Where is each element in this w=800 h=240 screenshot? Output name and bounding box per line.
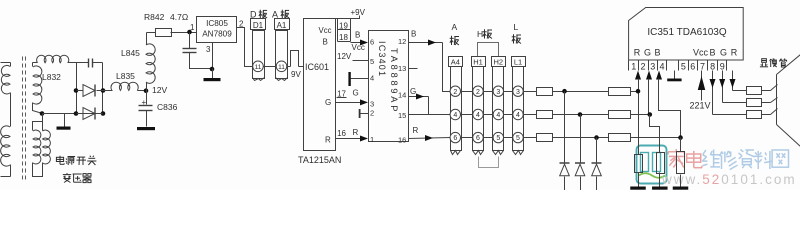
svg-text:Vcc: Vcc: [319, 26, 332, 35]
H1-H2 dashed link: [479, 157, 499, 168]
svg-text:H2: H2: [494, 58, 504, 67]
primary winding lower: [1, 126, 10, 166]
wire down: [596, 138, 598, 163]
svg-text:C836: C836: [157, 102, 178, 112]
wire Vcc pin5: [353, 60, 369, 62]
svg-text:R842: R842: [144, 12, 165, 22]
svg-text:G: G: [410, 87, 416, 96]
secondary winding lower B: [43, 130, 51, 164]
svg-text:+9V: +9V: [351, 8, 366, 17]
protection diode x580: [575, 162, 585, 164]
svg-text:B: B: [323, 38, 328, 47]
row resistors (second stage): [609, 88, 631, 96]
wire row1: [631, 91, 639, 93]
capacitor (top): [88, 59, 90, 68]
wire H1-H2: [484, 137, 494, 139]
svg-text:G: G: [325, 98, 331, 107]
svg-text:12V: 12V: [337, 52, 352, 61]
svg-text:13: 13: [398, 64, 406, 73]
connector D1: [251, 19, 266, 30]
output R to CRT: [732, 71, 734, 91]
wire +9V: [351, 16, 360, 19]
ground: [630, 187, 646, 190]
svg-text:B: B: [709, 48, 715, 58]
svg-text:TA8889AP: TA8889AP: [389, 48, 399, 114]
wire: [138, 90, 147, 92]
svg-text:4: 4: [370, 74, 374, 83]
output B (pin8) to CRT: [712, 71, 714, 115]
wire row2: [631, 114, 650, 116]
junction row3/pin3: [678, 135, 683, 140]
pin cells: [628, 61, 630, 71]
wire: [10, 165, 12, 177]
svg-text:16: 16: [337, 129, 346, 138]
svg-text:11: 11: [278, 64, 285, 71]
svg-text:R: R: [353, 128, 359, 137]
wire: [32, 63, 34, 67]
secondary winding lower A: [33, 130, 41, 164]
svg-text:L: L: [514, 22, 519, 32]
capacitor bar pin4: [348, 72, 350, 86]
wire primary bottom: [1, 176, 11, 178]
wire bottom row: [43, 113, 103, 115]
ground: [137, 127, 155, 130]
svg-text:R: R: [731, 48, 738, 58]
svg-text:6: 6: [690, 62, 695, 72]
junction: [210, 67, 215, 72]
cathode pin tick: [771, 109, 778, 115]
svg-text:2: 2: [640, 62, 645, 72]
label 电源开关: [59, 156, 61, 163]
junction x580: [578, 112, 583, 117]
svg-text:4: 4: [453, 112, 457, 119]
wire H2-L1: [504, 114, 513, 116]
svg-text:5: 5: [370, 57, 374, 66]
junction: [101, 111, 106, 116]
node secondary: [40, 111, 45, 116]
svg-text:1: 1: [370, 135, 374, 144]
svg-text:6: 6: [476, 135, 480, 142]
resistor R842: [147, 32, 156, 34]
svg-text:5: 5: [516, 135, 520, 142]
svg-text:3: 3: [370, 100, 374, 109]
svg-text:19: 19: [339, 22, 348, 31]
svg-text:5: 5: [681, 62, 686, 72]
H board bracket: [478, 43, 499, 57]
svg-text:B: B: [355, 31, 360, 40]
load resistor (pin3): [677, 152, 685, 174]
svg-text:L835: L835: [116, 71, 135, 81]
wire primary top: [1, 62, 11, 64]
ground: [652, 187, 668, 190]
ground: [57, 127, 71, 130]
svg-text:L1: L1: [514, 58, 522, 67]
capacitor C836: [146, 91, 148, 105]
protection diode x564.5: [560, 162, 570, 164]
wire: [146, 111, 148, 127]
wire R out (pin16): [409, 138, 451, 139]
diode D2 (lower): [83, 108, 95, 120]
svg-text:B: B: [411, 30, 416, 39]
wire H1-H2: [484, 114, 494, 116]
inductor L832: [33, 62, 38, 64]
wire IC805 pin2 to D1: [237, 28, 253, 67]
svg-text:3: 3: [516, 89, 520, 96]
primary winding upper: [1, 65, 10, 94]
wire: [33, 114, 43, 131]
svg-text:AN7809: AN7809: [202, 30, 232, 39]
svg-text:2: 2: [370, 109, 374, 118]
cathode pin tick: [771, 85, 778, 91]
connector L1: [512, 57, 526, 67]
core line: [25, 57, 27, 183]
pin1 input net (row1): [635, 71, 641, 80]
svg-text:6: 6: [453, 135, 457, 142]
cathode pin tick: [771, 98, 778, 103]
svg-text:7: 7: [700, 62, 705, 72]
watermark text 家电维修资料网: [675, 149, 677, 151]
stub pin2: [359, 109, 361, 118]
svg-text:G: G: [644, 48, 651, 58]
svg-text:G: G: [353, 89, 359, 98]
wire G out (pin14): [409, 96, 429, 98]
wire B (IC601 pin18 to IC3401 pin6): [351, 42, 361, 44]
svg-text:221V: 221V: [690, 101, 711, 111]
wire B out (pin12): [409, 42, 443, 44]
svg-text:4: 4: [659, 62, 664, 72]
wire pin3: [212, 43, 214, 69]
svg-text:B: B: [654, 48, 660, 58]
wire D1-A1: [264, 66, 277, 68]
output G (pin9) to CRT: [722, 71, 724, 103]
stub pin13: [409, 68, 418, 70]
wire: [171, 32, 197, 34]
pin cells 19/18: [336, 18, 351, 20]
svg-text:9V: 9V: [291, 70, 301, 79]
svg-text:IC3401: IC3401: [377, 41, 387, 77]
221V supply (pin7): [701, 71, 703, 101]
svg-text:A4: A4: [451, 58, 460, 67]
svg-text:A: A: [452, 22, 458, 32]
svg-text:6: 6: [370, 38, 374, 47]
svg-text:G: G: [720, 48, 727, 58]
junction x596.5: [594, 135, 599, 140]
stub pin15: [409, 114, 429, 116]
wire right vertical: [102, 63, 104, 114]
wire G (IC601 pin17 to IC3401 pin3): [336, 102, 361, 104]
IC IC3401 TA8889AP: [369, 31, 409, 142]
connector H1: [472, 57, 486, 67]
wire A4-H1: [461, 114, 473, 116]
wire left vertical: [76, 63, 78, 114]
wire: [190, 53, 213, 69]
svg-text:Vcc: Vcc: [693, 48, 709, 58]
svg-text:8: 8: [710, 62, 715, 72]
svg-text:16: 16: [398, 136, 406, 145]
inductor L835: [103, 90, 113, 92]
wire: [33, 163, 43, 177]
jumper bump: [291, 51, 299, 67]
CRT cathode resistors: [747, 87, 762, 95]
wire H1-H2: [484, 91, 494, 93]
svg-text:IC601: IC601: [305, 62, 329, 72]
svg-text:H: H: [477, 29, 483, 39]
svg-text:4: 4: [476, 112, 480, 119]
regulator IC805 AN7809: [197, 17, 237, 43]
secondary winding upper: [33, 66, 42, 104]
junction: [74, 111, 79, 116]
svg-text:IC351 TDA6103Q: IC351 TDA6103Q: [647, 27, 727, 38]
wire down: [580, 115, 582, 163]
IC IC351 TDA6103Q: [629, 8, 744, 61]
wire H2-L1: [504, 91, 513, 93]
wire to edge: [564, 177, 566, 191]
wire A4-H1: [461, 91, 473, 93]
svg-text:5: 5: [496, 135, 500, 142]
connector A4: [449, 57, 463, 67]
svg-text:Vcc: Vcc: [352, 43, 365, 52]
svg-text:D1: D1: [253, 21, 264, 30]
wire pin4: [351, 78, 369, 80]
CRT base: [776, 75, 778, 125]
label 显像管: [762, 59, 767, 63]
junction: [74, 88, 79, 93]
svg-text:IC805: IC805: [206, 19, 228, 28]
wire to IC601: [299, 66, 304, 68]
svg-text:4: 4: [516, 112, 520, 119]
svg-text:4: 4: [496, 112, 500, 119]
connector H2: [492, 57, 506, 67]
ground: [204, 78, 221, 81]
protection diode x596.5: [592, 162, 602, 164]
svg-text:L845: L845: [121, 48, 140, 58]
svg-text:3: 3: [496, 89, 500, 96]
svg-text:12: 12: [398, 37, 406, 46]
svg-text:TA1215AN: TA1215AN: [298, 155, 341, 165]
wire: [68, 62, 89, 64]
pin2 input net (row2): [646, 71, 652, 80]
wire: [287, 66, 291, 68]
junction row2/pin2: [648, 112, 653, 117]
junction row1/pin1: [636, 89, 641, 94]
svg-text:4.7Ω: 4.7Ω: [170, 12, 188, 22]
svg-text:18: 18: [339, 33, 348, 42]
IC IC601 TA1215AN: [304, 19, 336, 151]
svg-text:L832: L832: [42, 72, 61, 82]
wire to ground: [64, 114, 66, 127]
wire R (IC601 pin16 to IC3401 pin1): [336, 138, 361, 140]
svg-text:14: 14: [398, 91, 406, 100]
wire down: [564, 92, 566, 163]
watermark logo box: [637, 146, 667, 184]
svg-text:R: R: [413, 126, 419, 135]
CRT funnel bottom: [777, 125, 800, 147]
svg-text:12V: 12V: [152, 85, 167, 95]
svg-text:R: R: [634, 48, 641, 58]
load resistor (pin1): [635, 155, 643, 173]
svg-text:3: 3: [206, 45, 211, 54]
svg-text:3: 3: [650, 62, 655, 72]
junction: [101, 88, 106, 93]
svg-text:A1: A1: [277, 21, 287, 30]
capacitor (IC805 input): [189, 33, 191, 49]
diode D1 (upper): [83, 85, 95, 97]
load resistor (pin2): [657, 153, 665, 174]
ground: [673, 187, 689, 190]
node 12V: [144, 88, 149, 93]
core line: [22, 57, 24, 183]
svg-text:1: 1: [190, 23, 195, 32]
wire A4-H1: [461, 137, 473, 139]
svg-text:1: 1: [631, 62, 636, 72]
wire H2-L1: [504, 137, 513, 139]
row resistors (first stage): [524, 91, 537, 93]
label 变压器: [66, 173, 68, 174]
svg-text:2: 2: [453, 89, 457, 96]
wire: [42, 122, 44, 131]
pin3 input net (row3): [656, 71, 662, 80]
svg-text:H1: H1: [473, 58, 483, 67]
svg-text:15: 15: [398, 111, 406, 120]
wire to edge: [596, 177, 598, 191]
svg-text:www.520101.com: www.520101.com: [661, 172, 797, 187]
svg-text:11: 11: [255, 64, 262, 71]
junction x564.5: [562, 89, 567, 94]
connector A1: [275, 19, 290, 30]
wire: [93, 62, 103, 64]
svg-text:R: R: [325, 136, 331, 145]
wire to edge: [580, 177, 582, 191]
wire row3: [631, 137, 681, 139]
svg-text:9: 9: [720, 62, 725, 72]
wire: [33, 103, 43, 114]
CRT funnel top: [777, 55, 800, 75]
svg-text:2: 2: [476, 89, 480, 96]
junction: [187, 30, 192, 35]
inductor L845: [146, 83, 148, 91]
pin4 ground bar: [674, 71, 676, 79]
